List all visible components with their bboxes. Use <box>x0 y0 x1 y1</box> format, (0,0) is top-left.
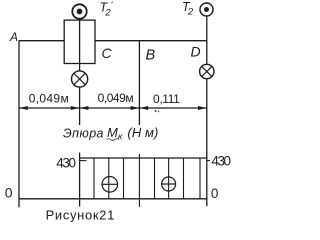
svg-text:Эпюра: Эпюра <box>63 126 104 140</box>
svg-text:A: A <box>9 30 18 44</box>
plus-in-circle marker 1 <box>102 177 118 193</box>
hatch line 3 <box>123 158 125 199</box>
hatch line 8 <box>199 158 201 199</box>
extension line below C torque <box>79 87 81 125</box>
hatch line 7 <box>183 158 185 199</box>
svg-text:430: 430 <box>56 156 76 171</box>
torque vector into-page at D (circle with X) <box>200 64 214 78</box>
svg-text:430: 430 <box>211 154 231 169</box>
smudge dots under 0,111 <box>155 110 157 112</box>
hatch line 4 / B extension through plot <box>138 154 140 207</box>
D extension line <box>206 79 208 207</box>
dim arrows meeting at B line <box>131 106 140 110</box>
torque vector T2 out-of-page circle <box>200 3 213 16</box>
node B extension line <box>138 41 140 125</box>
plus-in-circle marker 2 <box>162 177 176 191</box>
left extension line at A <box>18 41 20 208</box>
dim arrow left at A <box>19 106 28 110</box>
hatch line 6 <box>168 158 170 199</box>
tick 430 right <box>207 160 210 162</box>
shaft center line through pulley <box>79 19 81 71</box>
hatch line 2 <box>108 158 110 199</box>
shaft axis right segment <box>95 40 207 42</box>
zero baseline <box>19 198 207 200</box>
torque vector into-page at C (circle with X) <box>72 71 88 87</box>
torque plot box top edge <box>80 157 207 159</box>
dimension line <box>19 107 207 109</box>
dim arrow right at D <box>198 106 207 110</box>
pulley C rectangle <box>64 20 95 63</box>
torque vector T2' center dot <box>77 9 83 15</box>
svg-text:C: C <box>102 45 113 61</box>
torque vector T2' out-of-page circle <box>72 4 86 18</box>
svg-text:0: 0 <box>5 185 13 201</box>
hatch line 1 <box>93 158 95 199</box>
torque vector T2 center dot <box>204 7 209 12</box>
svg-text:B: B <box>146 48 156 64</box>
shaft axis left segment <box>19 40 65 42</box>
svg-text:(Н м): (Н м) <box>127 125 158 140</box>
shaft line at D upper <box>206 16 208 64</box>
svg-text:0,049м: 0,049м <box>98 91 134 105</box>
svg-text:D: D <box>191 44 201 60</box>
dim arrows meeting at C line <box>71 106 80 110</box>
svg-text:0,049м: 0,049м <box>29 91 69 105</box>
squiggle under Mк <box>107 139 119 141</box>
tick 430 left <box>80 160 87 162</box>
svg-text:Рисунок21: Рисунок21 <box>46 207 115 222</box>
torque plot left edge / extension of C line <box>79 153 81 207</box>
svg-text:0,111: 0,111 <box>153 92 180 106</box>
hatch line 5 <box>154 158 156 199</box>
svg-text:0: 0 <box>211 186 219 201</box>
